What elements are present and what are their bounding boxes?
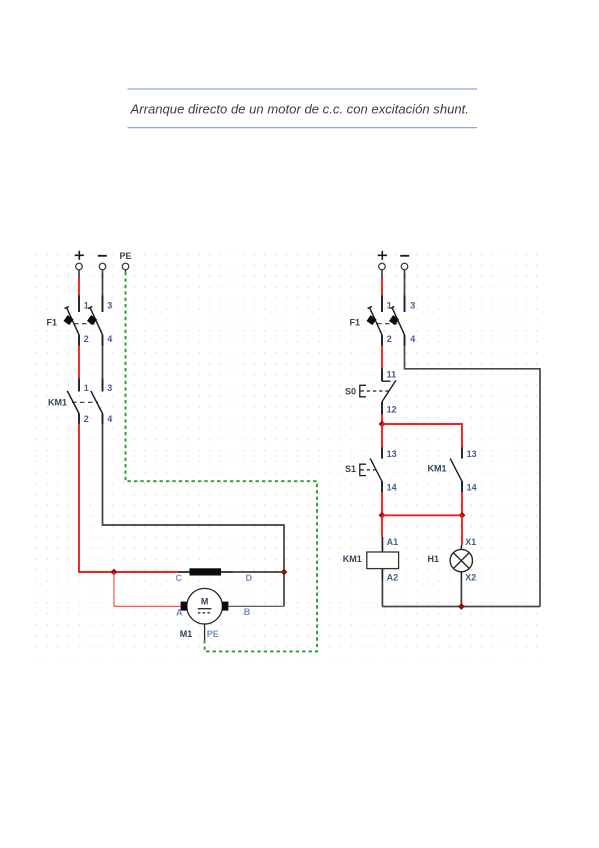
pole 1 pin 2 (381, 335, 383, 346)
node junction J3 (379, 421, 386, 428)
pole 2 pin 3 (404, 296, 406, 313)
svg-text:X1: X1 (465, 537, 476, 547)
pushbutton S0 (NC) (345, 369, 397, 415)
wire red S1:14 to node J4 (381, 492, 383, 515)
wire red S0:12 to node J3 (381, 414, 383, 424)
terminal PE (left) (120, 251, 132, 274)
pole 1 thermal square (63, 315, 73, 325)
svg-text:14: 14 (387, 483, 397, 493)
svg-text:2: 2 (84, 414, 89, 424)
wire black F1:4 right loop to bottom rail (405, 346, 541, 607)
svg-text:3: 3 (107, 301, 112, 311)
wire red J3 to S1:13 (381, 424, 383, 448)
pole 1 pin 1 (78, 296, 80, 313)
svg-text:KM1: KM1 (428, 463, 447, 473)
wire black bottom rail (382, 606, 540, 608)
pole 2 pin 3 (102, 379, 104, 392)
brush A (181, 602, 187, 611)
pin 14 (461, 481, 463, 492)
terminal + (right) (378, 251, 387, 279)
pin 11 (381, 369, 383, 382)
node junction J1 (111, 569, 118, 576)
contactor KM1 auxiliary contact (NO) (428, 448, 477, 493)
svg-text:13: 13 (387, 449, 397, 459)
svg-text:PE: PE (207, 629, 219, 639)
pole 1 pin 2 (78, 414, 80, 425)
svg-text:KM1: KM1 (343, 554, 362, 564)
svg-text:S1: S1 (345, 464, 356, 474)
wire red J1 down to motor A (thin) (114, 572, 181, 606)
pole 2 blade (392, 308, 405, 335)
pole 2 blade (91, 391, 103, 414)
node junction J6 (458, 603, 465, 610)
button cap (360, 464, 366, 475)
breaker F1 (right, 2-pole) (350, 296, 416, 347)
plunger dashed (361, 390, 390, 392)
wire motor B to J2 column (thin) (229, 605, 285, 607)
motor M1 (DC machine) (176, 588, 251, 640)
plunger dashed (361, 469, 377, 471)
fixed contact leg (382, 380, 391, 382)
svg-text:H1: H1 (428, 554, 440, 564)
svg-text:F1: F1 (350, 317, 361, 327)
svg-text:14: 14 (467, 483, 477, 493)
terminal - (left) (98, 256, 107, 278)
svg-text:M: M (201, 596, 209, 606)
pole 2 pin 4 (102, 414, 104, 425)
wire black KM1:4 down, right, down to motor B (103, 424, 285, 607)
svg-text:F1: F1 (47, 317, 58, 327)
svg-text:M1: M1 (180, 629, 193, 639)
svg-text:13: 13 (467, 449, 477, 459)
pole 1 pin 2 (78, 335, 80, 346)
title top rule (128, 88, 478, 90)
pin 13 (461, 448, 463, 459)
wire red + to F1:1 (78, 278, 80, 296)
wire red + to F1:1 (right) (381, 278, 383, 296)
svg-text:B: B (244, 607, 251, 617)
linkage dashes (377, 323, 399, 325)
svg-text:2: 2 (84, 334, 89, 344)
breaker F1 (left, 2-pole) (47, 296, 113, 347)
pole 2 pin 4 (404, 335, 406, 346)
PE pin of motor (204, 624, 206, 641)
svg-text:3: 3 (107, 383, 112, 393)
svg-text:PE: PE (120, 251, 132, 261)
wire red F1:2 to KM1:1 (78, 346, 80, 380)
terminal + (left) (75, 251, 84, 279)
pole 2 pin 3 (102, 296, 104, 313)
blade (450, 458, 462, 481)
svg-text:4: 4 (410, 334, 415, 344)
svg-text:1: 1 (84, 301, 89, 311)
wire PE green dashed (126, 272, 318, 651)
pole 1 pin 1 (78, 379, 80, 392)
pole 2 blade (90, 308, 103, 335)
svg-text:A: A (176, 608, 183, 618)
wire red J3 branch to KM1 aux 13 (382, 424, 462, 448)
svg-text:A2: A2 (387, 573, 399, 583)
svg-text:4: 4 (107, 414, 112, 424)
pin 14 (381, 481, 383, 492)
svg-text:2: 2 (387, 334, 392, 344)
wire red J4 to coil A1 (381, 515, 383, 537)
svg-text:3: 3 (410, 301, 415, 311)
pole 1 thermal square (366, 315, 376, 325)
node junction J4 (379, 512, 386, 519)
terminal - (right) (400, 256, 409, 278)
svg-text:C: C (176, 573, 183, 583)
blade (370, 458, 382, 481)
pole 2 thermal square (87, 315, 97, 325)
svg-text:4: 4 (107, 334, 112, 344)
wire black - to F1:3 (102, 274, 104, 296)
pin 12 (381, 402, 383, 415)
wire red KM1:2 down and right to field winding (79, 424, 178, 573)
svg-text:12: 12 (387, 405, 397, 415)
brush B (222, 602, 228, 611)
shunt field winding C-D (176, 568, 253, 583)
pole 2 pin 4 (102, 335, 104, 346)
node junction J5 (459, 512, 466, 519)
pole 2 thermal square (389, 315, 399, 325)
wire red F1:2 to S0:11 (381, 346, 383, 370)
button cap (360, 385, 366, 397)
wire black coil A2 to bottom rail (381, 580, 383, 607)
coil KM1 (A1-A2) (343, 537, 399, 583)
linkage dashes (72, 401, 98, 403)
pole 1 blade (370, 308, 383, 335)
wire red KM1:14 to node J5 (461, 492, 463, 515)
pole 1 blade (67, 391, 79, 414)
node junction J2 (281, 569, 288, 576)
indicator lamp H1 (X1-X2) (428, 537, 477, 583)
blade (382, 380, 396, 402)
pushbutton S1 (NO) (345, 448, 397, 493)
title bottom rule (128, 127, 478, 129)
svg-text:1: 1 (84, 383, 89, 393)
pole 1 pin 1 (381, 296, 383, 313)
svg-text:X2: X2 (465, 573, 476, 583)
wire black lamp X2 to bottom rail (460, 580, 462, 607)
svg-text:Arranque directo de un motor d: Arranque directo de un motor de c.c. con… (130, 102, 469, 117)
linkage dashes (74, 323, 96, 325)
svg-text:A1: A1 (387, 537, 399, 547)
wire black - to F1:3 (right) (404, 274, 406, 296)
pole 1 blade (67, 308, 80, 335)
svg-text:KM1: KM1 (48, 398, 67, 408)
contactor KM1 main contacts (left, 2-pole) (48, 379, 112, 425)
wire black F1:4 to KM1:3 (102, 346, 104, 380)
wire field winding D to J2 (233, 571, 285, 573)
svg-text:S0: S0 (345, 386, 356, 396)
wire red J4 to J5 (382, 514, 462, 516)
svg-text:D: D (246, 573, 253, 583)
wire red J5 to lamp X1 (461, 515, 463, 545)
pin 13 (381, 448, 383, 459)
svg-text:11: 11 (387, 370, 397, 380)
svg-text:1: 1 (387, 301, 392, 311)
grid dot background (35, 253, 543, 657)
